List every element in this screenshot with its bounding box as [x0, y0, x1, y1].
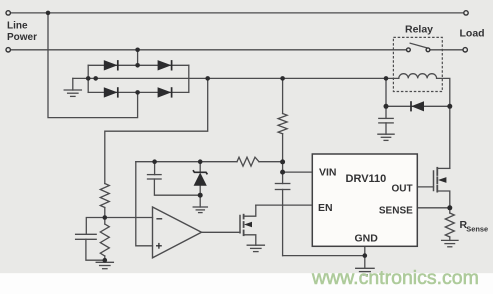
svg-text:GND: GND: [355, 233, 379, 245]
svg-text:Sense: Sense: [466, 224, 488, 233]
svg-text:EN: EN: [318, 202, 333, 214]
svg-text:SENSE: SENSE: [379, 206, 413, 217]
svg-text:Line: Line: [7, 21, 28, 32]
svg-text:Load: Load: [460, 27, 485, 39]
svg-text:DRV110: DRV110: [346, 173, 387, 185]
svg-text:www.cntronics.com: www.cntronics.com: [311, 267, 479, 289]
svg-text:Power: Power: [7, 32, 37, 43]
svg-text:VIN: VIN: [319, 166, 337, 178]
svg-text:Relay: Relay: [405, 23, 433, 35]
svg-text:OUT: OUT: [391, 184, 412, 195]
